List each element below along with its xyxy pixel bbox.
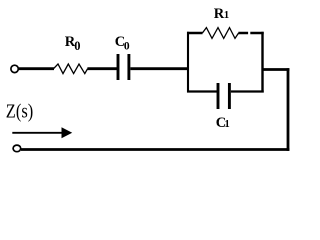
resistor R1 bbox=[202, 28, 238, 39]
capacitor C1 bbox=[218, 83, 229, 109]
wire (C0 to parallel branch) bbox=[130, 67, 189, 70]
label Z(s) bbox=[6, 101, 33, 123]
wire (bottom rail right segment) bbox=[231, 90, 264, 92]
wire (T1 to R0) bbox=[19, 67, 54, 70]
svg-text:1: 1 bbox=[224, 10, 229, 21]
capacitor C0 bbox=[118, 54, 129, 80]
node B (right branch vertical) bbox=[261, 32, 263, 93]
terminal T2 (bottom-left open circle) bbox=[13, 145, 21, 152]
arrow (impedance direction) bbox=[12, 127, 72, 138]
terminal T1 (top-left open circle) bbox=[11, 65, 18, 72]
label R0 bbox=[65, 34, 81, 53]
svg-text:0: 0 bbox=[74, 39, 80, 53]
wire (top rail left segment) bbox=[187, 32, 203, 35]
resistor R0 bbox=[54, 64, 88, 74]
wire (R0 to C0) bbox=[87, 67, 117, 70]
svg-text:Z(s): Z(s) bbox=[6, 101, 33, 123]
label R1 bbox=[214, 6, 229, 22]
wire (top rail right segment with small gap) bbox=[238, 32, 263, 35]
svg-text:0: 0 bbox=[124, 41, 130, 53]
wire (bottom return) bbox=[21, 148, 289, 151]
label C0 bbox=[115, 34, 130, 52]
wire (output to the right) bbox=[263, 68, 290, 71]
wire (bottom rail left segment) bbox=[187, 90, 217, 92]
svg-text:1: 1 bbox=[225, 119, 230, 130]
label C1 bbox=[216, 115, 230, 131]
wire (right drop vertical) bbox=[287, 68, 290, 151]
node A (left branch vertical) bbox=[187, 32, 189, 93]
